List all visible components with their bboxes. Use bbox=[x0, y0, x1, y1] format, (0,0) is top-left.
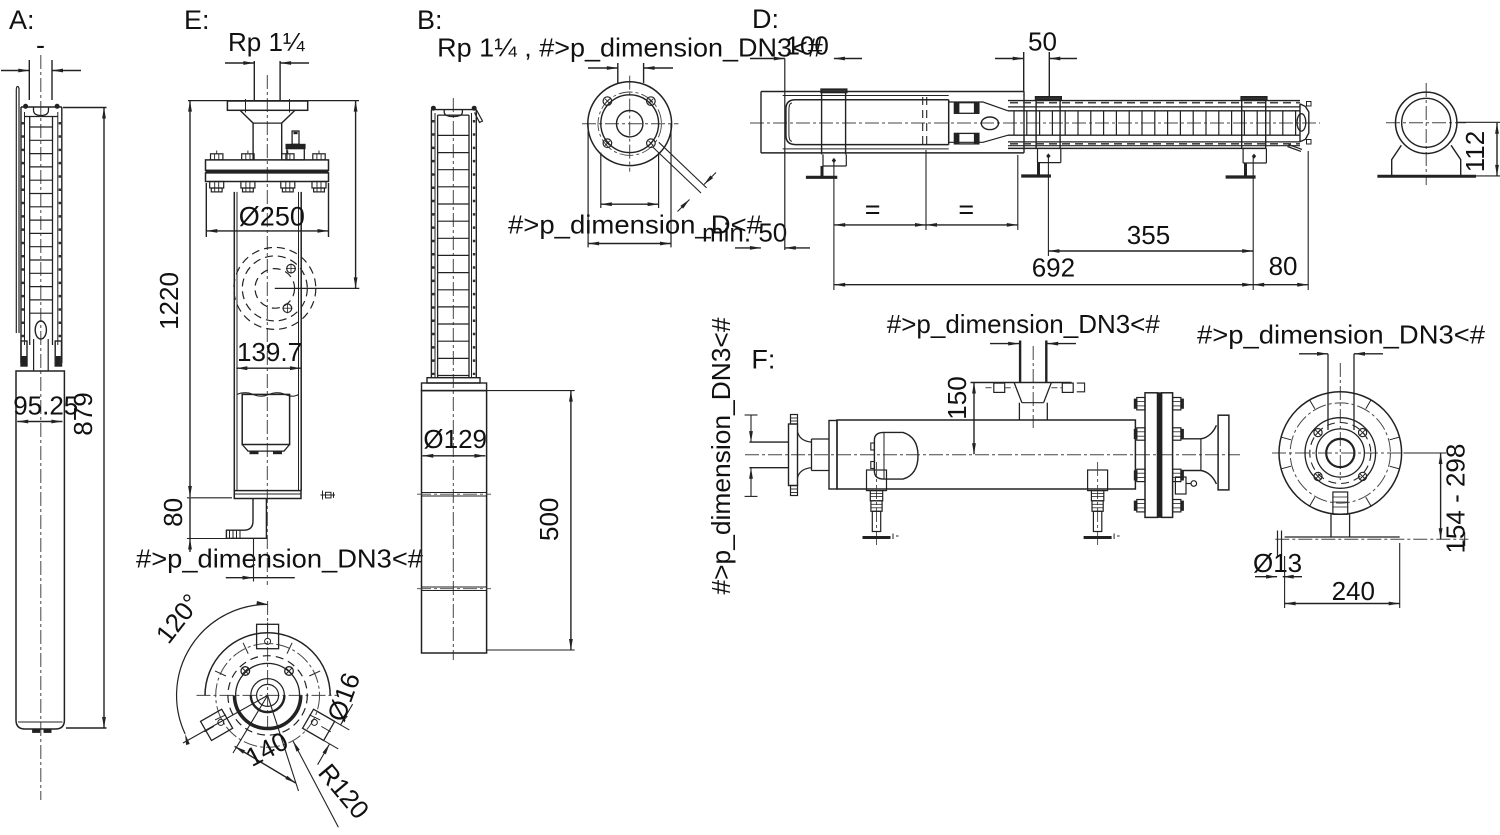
dimension R120 bbox=[293, 741, 375, 827]
view F nozzle centerline bbox=[1032, 346, 1034, 428]
view A rib cage bbox=[30, 117, 53, 345]
dimension 120 degrees bbox=[150, 588, 268, 745]
svg-text:879: 879 bbox=[68, 392, 98, 435]
view E sleeve bottom plate bbox=[234, 491, 301, 499]
view A cable guard oval bbox=[35, 321, 46, 339]
view D clamp 2 bbox=[1021, 97, 1061, 176]
B top view mid dimension bbox=[601, 202, 659, 206]
F side view flange circles bbox=[1279, 392, 1402, 515]
view E right vertical dimension bbox=[354, 101, 358, 289]
view F discharge flange pair bbox=[1145, 393, 1173, 518]
view F left DN3 label bbox=[706, 317, 736, 595]
view F inner motor bbox=[871, 432, 918, 479]
svg-text:154 - 298: 154 - 298 bbox=[1441, 444, 1471, 554]
F side view bolt holes bbox=[1314, 429, 1367, 481]
view E inner pump bottom bbox=[242, 394, 289, 453]
svg-text:50: 50 bbox=[1028, 27, 1057, 57]
dimension diameter 16 bbox=[305, 669, 366, 765]
svg-text:E:: E: bbox=[184, 5, 210, 35]
D side view motor circles bbox=[1396, 92, 1457, 153]
dimension 100 bbox=[750, 57, 862, 61]
view B top cap notch bbox=[444, 110, 462, 117]
view B top label bbox=[437, 33, 823, 63]
view E cone adapter bbox=[240, 110, 295, 160]
svg-text:F:: F: bbox=[751, 345, 775, 375]
view F nozzle dimension bbox=[990, 342, 1076, 346]
view E Rp text bbox=[228, 27, 305, 57]
svg-text:240: 240 bbox=[1332, 576, 1375, 606]
svg-text:80: 80 bbox=[1269, 251, 1298, 281]
view F label bbox=[751, 345, 775, 375]
dimension 80 view D bbox=[1253, 251, 1308, 287]
view E top reference line bbox=[188, 100, 359, 102]
view B label bbox=[417, 5, 443, 35]
E bottom view bolt holes bbox=[241, 667, 293, 676]
view F vent valve bbox=[1175, 477, 1196, 494]
view D coupling studs bbox=[954, 103, 979, 144]
B top view crosshair bbox=[582, 76, 679, 172]
view F flange bolts bbox=[1134, 398, 1183, 512]
view A centerline bbox=[40, 55, 42, 800]
svg-text:#>p_dimension_DN3<#: #>p_dimension_DN3<# bbox=[1197, 320, 1486, 350]
view A motor body bbox=[16, 371, 64, 732]
svg-text:Ø129: Ø129 bbox=[423, 424, 487, 454]
view A top dimension line bbox=[1, 60, 81, 100]
view D motor body bbox=[786, 100, 949, 145]
view D pump end cap bbox=[1297, 102, 1311, 145]
svg-text:A:: A: bbox=[9, 5, 35, 35]
svg-text:692: 692 bbox=[1032, 252, 1075, 282]
B top view bolt holes bbox=[603, 97, 655, 148]
dimension 500 bbox=[487, 391, 575, 650]
F side view flange ticks bbox=[1281, 400, 1399, 506]
dimension 355 bbox=[1048, 220, 1253, 253]
view F foot 1 bbox=[863, 462, 899, 548]
view E centerline bbox=[266, 75, 268, 585]
B top view bolt hole diameter leader bbox=[653, 142, 716, 211]
view F nozzle pipe bbox=[1020, 341, 1046, 383]
view E suction center line bbox=[275, 287, 360, 289]
D side view crosshair bbox=[1386, 83, 1466, 185]
svg-text:1220: 1220 bbox=[154, 272, 184, 330]
view D cable guard oval bbox=[981, 117, 998, 130]
E bottom view cable guard lower-left bbox=[199, 709, 233, 741]
view A no-value dimension text bbox=[36, 30, 45, 60]
D side view stand bbox=[1392, 145, 1461, 176]
view B pump shell bbox=[431, 110, 476, 378]
view B min50 dimension bbox=[735, 246, 810, 250]
view D centerline bbox=[750, 122, 1320, 124]
dimension 692 bbox=[834, 252, 1253, 286]
dimension 150 bbox=[942, 376, 1019, 454]
svg-text:#>p_dimension_DN3<#: #>p_dimension_DN3<# bbox=[136, 543, 424, 573]
svg-text:112: 112 bbox=[1460, 131, 1490, 172]
view F suction pipe bbox=[749, 442, 788, 468]
svg-text:100: 100 bbox=[786, 31, 829, 61]
view D cable guard dashes bbox=[1008, 101, 1300, 144]
E bottom view cable guard top bbox=[257, 622, 279, 648]
F side view crosshair bbox=[1272, 363, 1412, 480]
dimension 50 bbox=[995, 52, 1077, 100]
F side view nozzle dimension bbox=[1299, 352, 1383, 356]
view E sleeve walls bbox=[234, 192, 301, 491]
view F suction flange bbox=[789, 415, 830, 496]
view B section joints bbox=[417, 493, 491, 591]
D side view ground line bbox=[1377, 174, 1500, 177]
view B min 50 label bbox=[702, 217, 787, 247]
B top view Rp dimension bbox=[588, 63, 673, 83]
view E DN3 label bbox=[136, 543, 424, 573]
view B centerline bbox=[452, 98, 454, 660]
view E flange top bolts bbox=[211, 151, 326, 160]
svg-text:500: 500 bbox=[534, 498, 564, 541]
dimension 879 bbox=[63, 108, 107, 729]
B top view flange circles bbox=[588, 82, 672, 166]
svg-text:B:: B: bbox=[417, 5, 443, 35]
dimension 80 view E bbox=[158, 498, 267, 552]
view D rib tube bbox=[1008, 111, 1300, 135]
view E discharge elbow bbox=[226, 499, 266, 539]
dimension 154 - 298 bbox=[1403, 444, 1470, 554]
view B D label bbox=[508, 210, 763, 240]
view E riser pipe bbox=[254, 61, 280, 101]
view D end cable guard diagonal bbox=[1288, 145, 1303, 152]
view D clamp 3 bbox=[1226, 97, 1267, 177]
view A top cap corner dots bbox=[24, 104, 60, 108]
view A suction interconnect bbox=[21, 339, 62, 371]
view E flange bottom bolts bbox=[210, 182, 326, 192]
svg-text:=: = bbox=[958, 195, 974, 225]
svg-text:150: 150 bbox=[942, 376, 972, 419]
dimension diameter 129 bbox=[422, 424, 487, 458]
view E label bbox=[184, 5, 210, 35]
svg-text:D:: D: bbox=[752, 4, 779, 34]
dimension 1220 bbox=[154, 101, 192, 497]
svg-text:355: 355 bbox=[1127, 220, 1170, 250]
view F body centerline bbox=[745, 454, 1240, 456]
view B cable guard diagonal bbox=[475, 110, 483, 123]
view F foot 2 bbox=[1084, 462, 1120, 548]
view F side DN3 label bbox=[1197, 320, 1486, 350]
E bottom view cable guard lower-right bbox=[303, 709, 337, 741]
view F casing body bbox=[829, 420, 1135, 489]
svg-text:80: 80 bbox=[158, 498, 188, 527]
view A label bbox=[9, 5, 35, 35]
view A cable line bbox=[16, 87, 19, 334]
view F counterflange bbox=[971, 383, 1085, 393]
view B adapter plates bbox=[422, 378, 487, 391]
equal spacing dimension bbox=[834, 223, 1018, 227]
F side view foot bbox=[1331, 492, 1350, 538]
F side view nozzle pipe bbox=[1328, 354, 1354, 430]
dimension diameter 250 bbox=[206, 183, 328, 237]
view E Rp dimension bbox=[225, 61, 309, 65]
dimension 140 bbox=[233, 695, 299, 791]
dimension 95.25 bbox=[13, 391, 78, 424]
svg-text:Ø250: Ø250 bbox=[239, 202, 305, 232]
svg-text:Rp 1¼: Rp 1¼ bbox=[228, 27, 305, 57]
view B top cap corner dots bbox=[431, 106, 476, 110]
view E DN3 leader bbox=[226, 538, 295, 581]
E bottom view outer arc bbox=[205, 633, 330, 696]
B top view flange OD dimension bbox=[588, 242, 671, 246]
view D clamp 1 bbox=[806, 89, 847, 177]
view A top cap notch bbox=[34, 108, 49, 116]
view D extension lines bbox=[834, 150, 1308, 290]
B top view tangent lines outer bbox=[588, 124, 671, 248]
E bottom view inner circles bbox=[228, 656, 307, 735]
view F discharge nozzle bbox=[1181, 415, 1229, 490]
view B chamber body bbox=[422, 391, 487, 653]
dimension 112 bbox=[1457, 122, 1500, 176]
view F top DN3 label bbox=[887, 309, 1161, 339]
E bottom view centerlines bbox=[197, 601, 339, 730]
view E clamp mark right bbox=[320, 491, 335, 500]
view F nozzle neck bbox=[1014, 383, 1051, 420]
view E flange plate bbox=[227, 99, 307, 113]
dimension diameter 13 bbox=[1253, 548, 1302, 579]
F side view base bbox=[1275, 531, 1468, 557]
view F suction DN dimension bbox=[745, 415, 758, 496]
svg-text:=: = bbox=[865, 195, 881, 225]
dimension 100 text bbox=[786, 31, 829, 61]
dimension 50 text bbox=[1028, 27, 1057, 57]
view E hidden pump circles bbox=[234, 247, 316, 329]
E bottom view bolt circle bbox=[216, 644, 320, 748]
svg-text:#>p_dimension_DN3<#: #>p_dimension_DN3<# bbox=[887, 309, 1161, 339]
view A pump shell bbox=[21, 107, 62, 363]
E bottom view motor lower arc bbox=[234, 695, 301, 729]
B top view tangent lines inner bbox=[601, 153, 659, 208]
view D coupling taper bbox=[949, 102, 1008, 142]
svg-text:Ø13: Ø13 bbox=[1253, 548, 1302, 578]
view B rib cage bbox=[438, 115, 469, 378]
view D mid hidden joint bbox=[923, 97, 927, 148]
svg-text:min. 50: min. 50 bbox=[702, 217, 787, 247]
view E air valve bbox=[286, 131, 305, 160]
equal spacing marks bbox=[865, 195, 974, 225]
dimension 240 bbox=[1285, 543, 1400, 608]
svg-text:#>p_dimension_DN3<#: #>p_dimension_DN3<# bbox=[706, 317, 736, 595]
view D wall bracket bbox=[761, 59, 1024, 251]
svg-text:139.7: 139.7 bbox=[237, 337, 302, 367]
view E sleeve break line bbox=[237, 393, 299, 397]
view D label bbox=[752, 4, 779, 34]
dimension 139.7 bbox=[236, 337, 302, 370]
view D sleeve lines bbox=[1008, 107, 1300, 148]
view E bolted flange body bbox=[206, 160, 329, 182]
E bottom view bolt circle ticks bbox=[215, 643, 320, 720]
